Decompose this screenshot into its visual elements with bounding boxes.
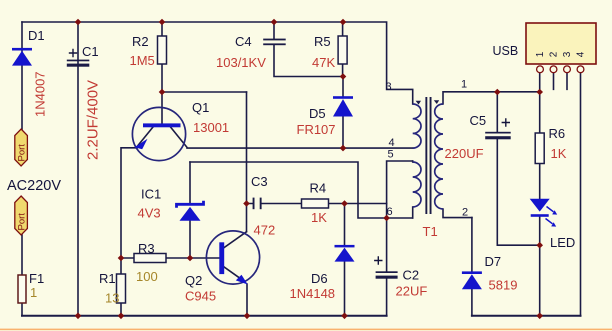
svg-text:D1: D1 (28, 28, 45, 43)
svg-text:3: 3 (386, 81, 392, 93)
svg-text:C3: C3 (251, 174, 268, 189)
svg-text:1K: 1K (551, 146, 567, 161)
svg-text:USB: USB (493, 44, 519, 58)
svg-text:1N4148: 1N4148 (290, 286, 336, 301)
svg-text:Port: Port (17, 144, 28, 162)
svg-text:1M5: 1M5 (130, 53, 155, 68)
svg-text:2: 2 (462, 207, 468, 219)
svg-text:13001: 13001 (193, 120, 229, 135)
svg-text:R1: R1 (99, 271, 116, 286)
svg-text:Port: Port (17, 213, 28, 231)
svg-text:2: 2 (549, 51, 560, 57)
svg-text:103/1KV: 103/1KV (216, 55, 266, 70)
svg-text:6: 6 (387, 206, 393, 218)
svg-text:4: 4 (389, 137, 395, 149)
svg-text:R5: R5 (314, 34, 331, 49)
svg-text:47K: 47K (312, 55, 335, 70)
svg-text:R6: R6 (549, 126, 566, 141)
svg-text:Q1: Q1 (192, 100, 209, 115)
svg-text:FR107: FR107 (297, 122, 336, 137)
svg-text:472: 472 (254, 223, 276, 238)
svg-text:1K: 1K (311, 210, 327, 225)
svg-text:C945: C945 (185, 289, 216, 304)
svg-text:C2: C2 (403, 268, 420, 283)
svg-text:D6: D6 (311, 271, 328, 286)
svg-text:5819: 5819 (489, 278, 518, 293)
svg-text:R4: R4 (310, 181, 327, 196)
svg-text:C1: C1 (82, 44, 99, 59)
svg-text:22UF: 22UF (396, 284, 428, 299)
svg-text:1N4007: 1N4007 (33, 71, 48, 117)
svg-text:4: 4 (576, 51, 587, 57)
svg-text:R2: R2 (132, 34, 149, 49)
svg-text:1: 1 (30, 285, 37, 300)
svg-text:C5: C5 (470, 113, 487, 128)
svg-text:4V3: 4V3 (138, 206, 161, 221)
svg-text:13: 13 (105, 291, 119, 306)
svg-text:D5: D5 (309, 106, 326, 121)
svg-text:IC1: IC1 (141, 187, 161, 202)
svg-text:2.2UF/400V: 2.2UF/400V (85, 80, 102, 160)
svg-text:C4: C4 (235, 34, 252, 49)
svg-text:LED: LED (550, 235, 575, 250)
svg-text:220UF: 220UF (445, 146, 484, 161)
svg-text:R3: R3 (138, 241, 155, 256)
svg-text:1: 1 (535, 51, 546, 57)
svg-text:F1: F1 (29, 271, 44, 286)
svg-text:T1: T1 (423, 224, 438, 239)
svg-text:AC220V: AC220V (7, 178, 61, 194)
svg-text:D7: D7 (485, 254, 502, 269)
svg-text:Q2: Q2 (185, 273, 202, 288)
svg-text:5: 5 (388, 149, 394, 161)
svg-text:1: 1 (461, 79, 467, 91)
svg-text:3: 3 (562, 51, 573, 57)
svg-text:100: 100 (136, 269, 158, 284)
